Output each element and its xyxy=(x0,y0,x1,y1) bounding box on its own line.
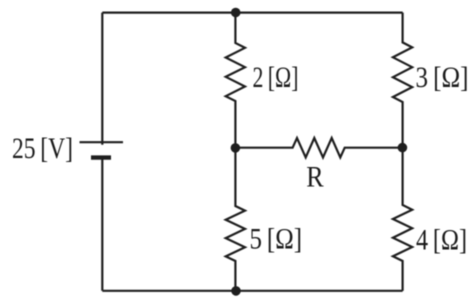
svg-text:2 [Ω]: 2 [Ω] xyxy=(253,61,299,94)
wire left rail lower (battery to bottom-left corner) xyxy=(101,158,103,291)
wire bottom rail xyxy=(102,290,402,292)
wire middle rail with resistor R zigzag xyxy=(235,138,402,157)
wire top rail xyxy=(102,12,402,14)
wire left rail upper (source to top-left corner) xyxy=(101,13,103,145)
resistor 3 ohm branch with zigzag xyxy=(393,13,412,148)
svg-text:R: R xyxy=(306,161,324,193)
node middle-right junction xyxy=(398,143,408,153)
battery short thick plate (-) xyxy=(91,155,111,159)
resistor 5 ohm branch with zigzag xyxy=(226,148,245,291)
node top junction xyxy=(231,8,241,18)
node bottom junction xyxy=(231,286,241,296)
battery V1 25V xyxy=(80,142,124,157)
resistor 4 ohm branch with zigzag xyxy=(393,148,412,291)
svg-text:4 [Ω]: 4 [Ω] xyxy=(416,223,467,256)
svg-text:5 [Ω]: 5 [Ω] xyxy=(250,223,303,256)
svg-text:25 [V]: 25 [V] xyxy=(12,132,73,165)
svg-text:3 [Ω]: 3 [Ω] xyxy=(416,61,469,94)
battery long plate (+) xyxy=(80,141,124,143)
node middle-left junction xyxy=(231,143,241,153)
resistor 2 ohm branch with zigzag xyxy=(226,12,245,147)
